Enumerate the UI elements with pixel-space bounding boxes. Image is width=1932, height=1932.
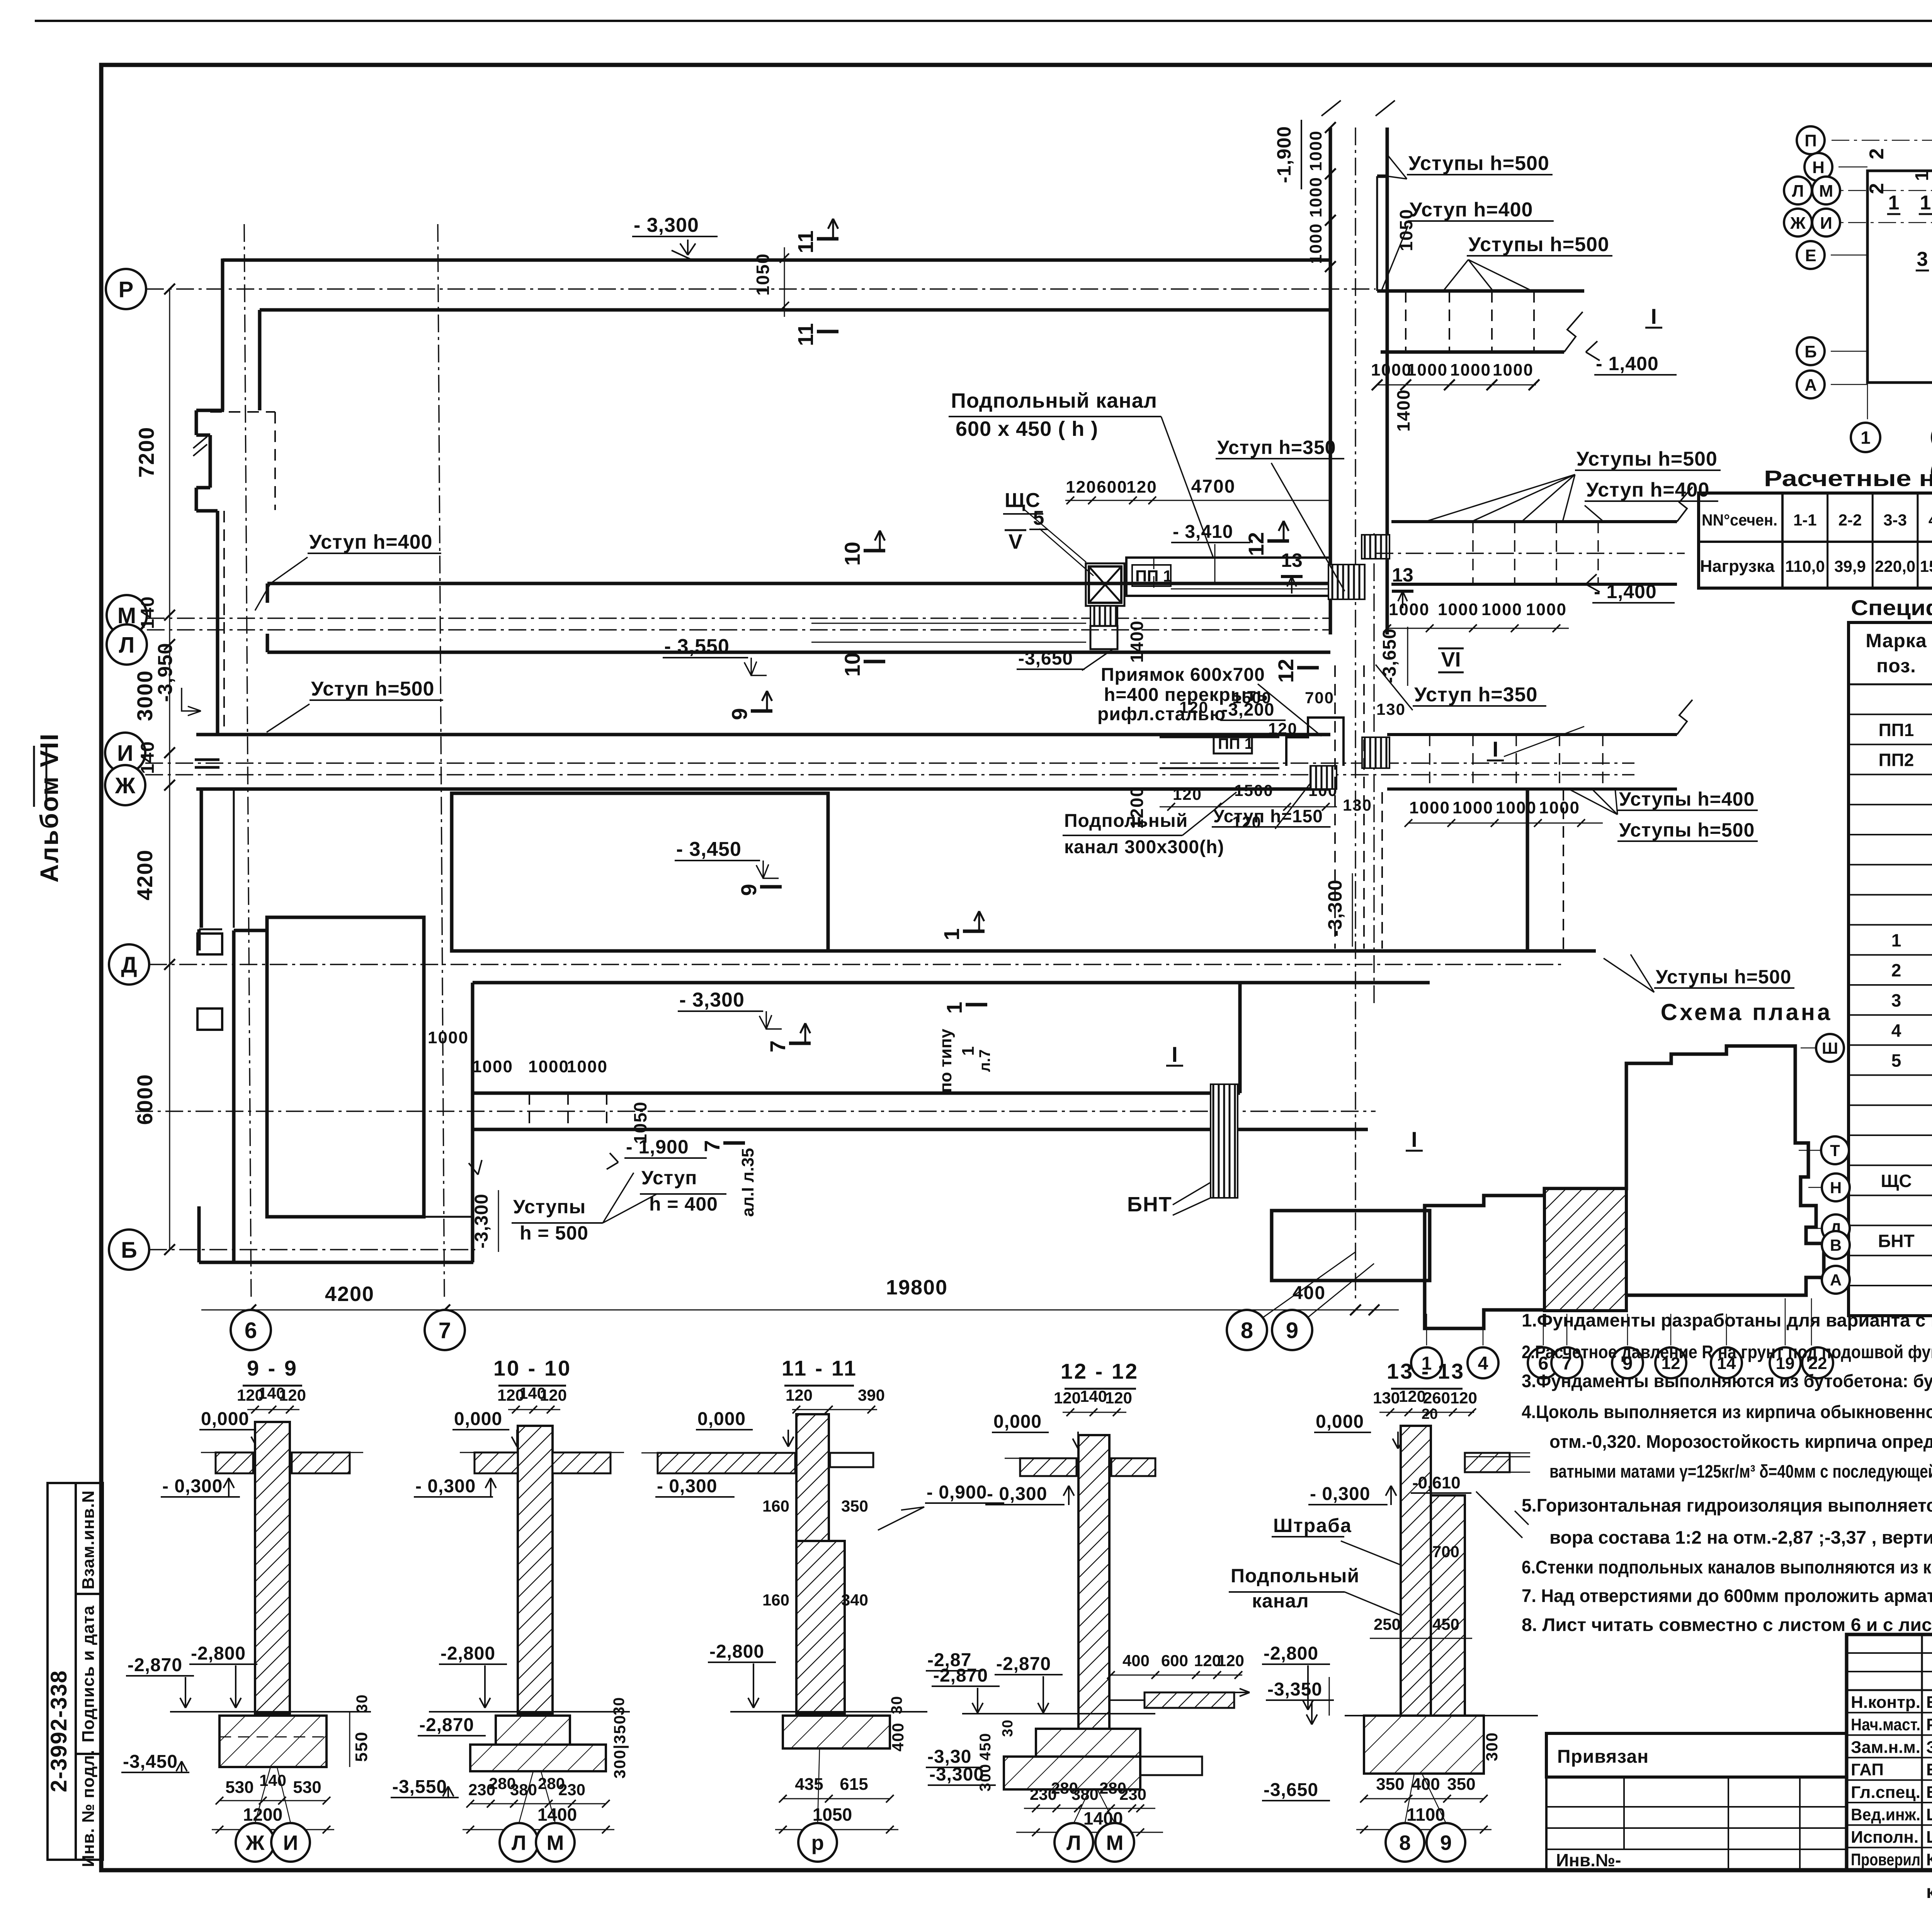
left wall top vertical outer [221, 259, 224, 410]
svg-text:1050: 1050 [630, 1101, 650, 1144]
12-12 right pad [1140, 1757, 1202, 1775]
wall band D top line [452, 949, 1596, 953]
svg-text:Приямок 600х700: Приямок 600х700 [1101, 665, 1265, 685]
ShchS X diag1 [1089, 566, 1121, 603]
left wall vert c [195, 488, 198, 511]
svg-text:160: 160 [762, 1497, 789, 1515]
svg-text:7. Над отверстиями до 600мм п: 7. Над отверстиями до 600мм проложить ар… [1522, 1585, 1932, 1606]
11-11 column upper [796, 1414, 829, 1541]
svg-text:Уступ h=400: Уступ h=400 [1410, 199, 1533, 221]
svg-text:-2,800: -2,800 [1264, 1643, 1318, 1664]
svg-text:Гл.спец.: Гл.спец. [1851, 1783, 1920, 1802]
svg-text:Н: Н [1830, 1179, 1842, 1197]
svg-text:1050: 1050 [1396, 209, 1416, 251]
schema right bubbles [1816, 1034, 1844, 1062]
left wall dashed v2 [223, 511, 225, 734]
svg-text:2-2: 2-2 [1838, 511, 1862, 529]
svg-text:Ш: Ш [1822, 1039, 1838, 1057]
svg-text:Проверил: Проверил [1851, 1850, 1920, 1869]
svg-text:1500: 1500 [1234, 781, 1273, 799]
svg-text:30: 30 [1000, 1719, 1016, 1737]
bottom right room rect [1272, 1211, 1430, 1281]
left wall vertical to I band [216, 511, 219, 735]
13-13 footing [1364, 1716, 1484, 1774]
svg-text:9: 9 [1440, 1831, 1452, 1854]
svg-text:1000: 1000 [1481, 600, 1522, 619]
svg-text:вора состава 1:2 на отм.-2,8: вора состава 1:2 на отм.-2,87 ;-3,37 , в… [1549, 1527, 1932, 1548]
svg-text:7200: 7200 [134, 427, 158, 478]
svg-text:7: 7 [700, 1140, 724, 1152]
lower-left outer wall vertical2 [197, 1206, 201, 1262]
svg-text:1-1: 1-1 [1793, 511, 1817, 529]
dim line band R [784, 247, 785, 317]
leader bubble 9 [1308, 1264, 1374, 1318]
svg-text:160: 160 [762, 1591, 789, 1609]
svg-text:Н: Н [1812, 158, 1825, 177]
svg-text:1000: 1000 [1452, 798, 1493, 817]
svg-text:Ж: Ж [1790, 214, 1806, 233]
svg-text:Инв.№-: Инв.№- [1556, 1850, 1621, 1870]
axis 7 centerline [438, 224, 444, 1298]
svg-text:РАДЫГИН: РАДЫГИН [1926, 1715, 1932, 1734]
svg-text:380: 380 [1071, 1785, 1099, 1803]
svg-text:Исполн.: Исполн. [1851, 1828, 1918, 1847]
svg-text:260: 260 [1423, 1389, 1450, 1407]
svg-text:9: 9 [727, 708, 752, 720]
plate PP1 long box [1126, 558, 1330, 596]
svg-text:450: 450 [1432, 1615, 1459, 1633]
hatch at I/Zh crossing [1310, 766, 1337, 789]
svg-text:I: I [1411, 1127, 1417, 1151]
break mark [1564, 312, 1583, 352]
svg-text:0,000: 0,000 [454, 1409, 502, 1429]
10-10 ground [429, 1711, 630, 1713]
dim line y996 [1377, 384, 1536, 386]
svg-text:-3,450: -3,450 [123, 1752, 178, 1772]
left wall notch a2 [195, 410, 198, 435]
svg-text:В: В [1830, 1236, 1842, 1254]
scheme left block [1867, 171, 1932, 383]
svg-text:700: 700 [1305, 689, 1334, 707]
svg-text:Взам.инв.N: Взам.инв.N [79, 1490, 98, 1590]
svg-text:-3,650: -3,650 [1379, 628, 1400, 683]
svg-text:1500: 1500 [1232, 689, 1271, 707]
scheme bottom leader lines [1867, 383, 1868, 419]
svg-text:30: 30 [354, 1694, 371, 1713]
lower centerline [135, 1111, 1376, 1112]
svg-text:поз.: поз. [1876, 655, 1916, 677]
section mark 1 upper [963, 930, 985, 933]
svg-text:-3,300: -3,300 [471, 1194, 492, 1248]
svg-text:120: 120 [1173, 785, 1202, 803]
svg-text:1: 1 [1891, 930, 1901, 950]
svg-text:6: 6 [245, 1318, 257, 1343]
axis I centerline [145, 762, 1634, 764]
svg-text:Спецификация изделий и мате: Спецификация изделий и материалов на фун… [1851, 595, 1932, 620]
I ext break [1677, 700, 1692, 735]
svg-text:БНТ: БНТ [1878, 1231, 1914, 1251]
svg-text:220,0: 220,0 [1875, 557, 1915, 575]
wall band I bottom line [196, 787, 1330, 791]
dim line 4200 [201, 1310, 445, 1311]
svg-text:13: 13 [1281, 549, 1303, 571]
axis D centerline [149, 964, 1565, 965]
hatch at M/L crossing [1328, 565, 1365, 599]
svg-text:Подпольный канал: Подпольный канал [951, 389, 1157, 412]
right wall dashed [1563, 789, 1564, 951]
svg-text:Подпольный: Подпольный [1231, 1565, 1359, 1587]
10-10 footing lower [470, 1745, 606, 1771]
11-11 slab left long [658, 1453, 795, 1473]
svg-text:1400: 1400 [1393, 389, 1413, 432]
svg-text:VI: VI [1441, 648, 1461, 671]
svg-text:Д: Д [121, 952, 137, 978]
svg-text:130: 130 [1343, 796, 1372, 814]
leaders ShchS [1024, 509, 1086, 562]
dashed verticals below band5 [529, 1093, 530, 1129]
11-11 column lower wide [796, 1541, 845, 1714]
left wall notch d [196, 509, 218, 513]
12-12 column [1078, 1435, 1109, 1729]
svg-text:Н.контр.: Н.контр. [1851, 1693, 1920, 1712]
svg-text:л.7: л.7 [976, 1049, 993, 1072]
svg-text:11: 11 [793, 323, 818, 346]
svg-text:р: р [811, 1831, 824, 1854]
svg-text:4200: 4200 [133, 849, 157, 901]
svg-text:Марка: Марка [1866, 630, 1927, 651]
svg-text:0,000: 0,000 [697, 1409, 746, 1429]
svg-text:Схема плана: Схема плана [1661, 999, 1833, 1025]
svg-text:Подпольный: Подпольный [1064, 811, 1188, 831]
svg-text:Уступы h=500: Уступы h=500 [1619, 819, 1755, 841]
svg-text:3000: 3000 [133, 670, 157, 721]
svg-text:4: 4 [1478, 1353, 1488, 1374]
svg-text:120: 120 [279, 1386, 306, 1404]
right wall vertical [1526, 789, 1529, 951]
svg-text:Б: Б [121, 1238, 137, 1263]
13-13 top right lines [1465, 1456, 1530, 1458]
svg-text:5.Горизонтальная гидроизоляция: 5.Горизонтальная гидроизоляция выполняет… [1522, 1495, 1932, 1515]
svg-text:1000: 1000 [1450, 361, 1491, 379]
bottom wall line [473, 1128, 1368, 1131]
svg-text:Ж: Ж [245, 1831, 265, 1854]
strip top break marks [1321, 100, 1341, 116]
svg-text:10: 10 [840, 653, 864, 677]
10-10 column [518, 1426, 553, 1714]
svg-text:0,000: 0,000 [993, 1412, 1042, 1432]
svg-text:120: 120 [1105, 1389, 1132, 1407]
svg-text:130: 130 [1373, 1389, 1400, 1407]
svg-text:530: 530 [225, 1778, 253, 1797]
svg-text:ПП1: ПП1 [1879, 720, 1914, 740]
svg-text:130: 130 [1376, 700, 1406, 718]
axis L centerline [147, 629, 1331, 630]
axis M bubble [107, 595, 147, 635]
svg-text:Л: Л [1066, 1831, 1081, 1854]
svg-text:1000: 1000 [1496, 798, 1537, 817]
leader -3.410 [1214, 544, 1216, 584]
svg-text:И: И [1820, 214, 1832, 233]
svg-text:копировал: копировал [1926, 1882, 1932, 1902]
left wall top vertical inner [258, 310, 262, 410]
svg-text:-2,870: -2,870 [933, 1665, 988, 1686]
svg-text:- 0,300: - 0,300 [987, 1484, 1047, 1504]
svg-text:10 - 10: 10 - 10 [493, 1356, 571, 1380]
svg-text:- 3,300: - 3,300 [679, 989, 745, 1011]
axis B bubble [109, 1230, 149, 1270]
svg-text:140: 140 [138, 741, 158, 774]
dim line I [1408, 823, 1603, 824]
section mark 9 lower [760, 885, 782, 889]
svg-text:Уступы h=400: Уступы h=400 [1619, 788, 1755, 810]
svg-text:2: 2 [1866, 183, 1888, 194]
step line y911 [1381, 350, 1564, 354]
svg-text:1200: 1200 [1127, 786, 1147, 829]
svg-text:-3,650: -3,650 [1018, 648, 1073, 669]
left wall below I band2 [233, 789, 235, 928]
svg-text:300: 300 [1483, 1732, 1501, 1761]
svg-text:300|350: 300|350 [611, 1714, 629, 1779]
svg-text:350: 350 [1376, 1775, 1404, 1794]
svg-text:550: 550 [352, 1731, 371, 1762]
svg-text:- 0,300: - 0,300 [415, 1476, 476, 1497]
svg-text:1050: 1050 [753, 253, 773, 296]
svg-text:600: 600 [1097, 478, 1127, 497]
svg-text:ШИЛТОВА: ШИЛТОВА [1926, 1805, 1932, 1824]
section mark 13 right [1392, 590, 1413, 593]
svg-text:- 1,400: - 1,400 [1596, 353, 1659, 374]
svg-text:по типу: по типу [936, 1029, 955, 1093]
svg-text:3: 3 [1891, 990, 1901, 1010]
svg-text:1000: 1000 [1526, 600, 1567, 619]
svg-text:Е: Е [1805, 246, 1816, 265]
svg-text:11 - 11: 11 - 11 [782, 1356, 857, 1380]
svg-text:Инв. № подл.: Инв. № подл. [79, 1750, 98, 1867]
left dim chain line [169, 289, 170, 1250]
scheme axis bubbles left [1797, 126, 1825, 154]
svg-text:0,000: 0,000 [1316, 1412, 1364, 1432]
BNT hatch block [1211, 1084, 1238, 1198]
svg-text:350: 350 [841, 1497, 868, 1515]
svg-text:4.Цоколь выполняется из кирпич: 4.Цоколь выполняется из кирпича обыкнове… [1522, 1401, 1932, 1422]
svg-text:Уступ h=350: Уступ h=350 [1217, 437, 1336, 458]
svg-text:7: 7 [439, 1318, 451, 1343]
svg-text:Уступ h=350: Уступ h=350 [1414, 684, 1537, 706]
svg-text:ЕГОРОВ: ЕГОРОВ [1926, 1693, 1932, 1712]
hatch at I/Zh crossing2 [1362, 737, 1389, 768]
svg-text:Л: Л [1792, 182, 1804, 201]
dashed step verticals [1405, 291, 1406, 352]
schema plana hatched block [1544, 1189, 1626, 1311]
svg-text:- 3,450: - 3,450 [676, 838, 742, 861]
svg-text:120: 120 [1217, 1651, 1244, 1670]
svg-text:11: 11 [793, 230, 818, 253]
svg-text:- 0,300: - 0,300 [1310, 1484, 1370, 1504]
svg-text:БОРОЗНОВ: БОРОЗНОВ [1926, 1783, 1932, 1802]
scheme bottom bubbles [1851, 423, 1880, 452]
schema plana outline [1425, 1046, 1824, 1328]
left wall notch b [196, 434, 210, 437]
axis 9 centerline partial [1373, 533, 1374, 1005]
wall band R top line [223, 259, 1330, 262]
privyazan grid [1546, 1777, 1847, 1870]
svg-text:П: П [1804, 131, 1817, 150]
svg-text:390: 390 [858, 1386, 885, 1404]
svg-text:7: 7 [765, 1040, 790, 1052]
axis Zh bubble [105, 765, 145, 805]
dim line mid [1387, 628, 1569, 629]
axis M centerline [147, 617, 1331, 619]
svg-text:-1,900: -1,900 [1273, 126, 1295, 183]
ShchS X-box [1089, 566, 1121, 603]
svg-text:120: 120 [1126, 478, 1157, 497]
9-9 footing [219, 1716, 327, 1767]
strip dashed left [1334, 665, 1336, 949]
svg-text:3-3: 3-3 [1883, 511, 1907, 529]
svg-text:1000: 1000 [528, 1057, 569, 1076]
svg-text:450: 450 [977, 1733, 994, 1761]
svg-text:М: М [547, 1831, 564, 1854]
9-9 bubbles [255, 1767, 270, 1823]
axis B centerline [149, 1249, 475, 1250]
svg-text:Уступ h=400: Уступ h=400 [1586, 479, 1709, 501]
svg-text:Уступы h=500: Уступы h=500 [1656, 966, 1791, 988]
svg-text:9 - 9: 9 - 9 [247, 1356, 298, 1380]
svg-text:1: 1 [1861, 428, 1871, 448]
svg-text:ЕГОРОВ: ЕГОРОВ [1926, 1760, 1932, 1779]
svg-text:1000: 1000 [428, 1028, 469, 1047]
svg-text:-3,950: -3,950 [154, 643, 177, 702]
svg-text:39,9: 39,9 [1834, 557, 1866, 575]
svg-text:120: 120 [1179, 698, 1209, 716]
dim line plate row [1065, 500, 1330, 501]
svg-text:1000: 1000 [1539, 798, 1580, 817]
svg-text:120: 120 [786, 1386, 813, 1404]
svg-text:ПП2: ПП2 [1879, 750, 1914, 770]
spec table grid [1849, 622, 1932, 1316]
svg-text:М: М [1819, 182, 1833, 201]
svg-text:1: 1 [1888, 192, 1900, 214]
axis 6 centerline [244, 224, 251, 1298]
svg-text:230: 230 [1119, 1785, 1146, 1803]
svg-text:6000: 6000 [133, 1074, 157, 1125]
svg-text:600: 600 [1161, 1651, 1188, 1670]
13-13 slab right [1465, 1453, 1510, 1472]
svg-text:h = 400: h = 400 [649, 1193, 718, 1215]
ShchS X-box outer [1086, 563, 1124, 606]
svg-text:120: 120 [1054, 1389, 1081, 1407]
svg-text:-2,800: -2,800 [709, 1641, 764, 1662]
title block vertical lines left part [1921, 1634, 1923, 1870]
svg-text:1400: 1400 [1127, 620, 1147, 663]
axis I bubble [105, 733, 145, 773]
11-11 ground [730, 1711, 927, 1713]
svg-text:Уступы h=500: Уступы h=500 [1577, 448, 1718, 470]
13-13 column right part [1431, 1495, 1465, 1716]
svg-text:1.Фундаменты разработаны для: 1.Фундаменты разработаны для варианта с … [1522, 1310, 1932, 1330]
9-9 column [255, 1422, 290, 1714]
wall band I top line [196, 733, 1330, 736]
privyazan box [1546, 1733, 1847, 1777]
svg-text:Уступы h=500: Уступы h=500 [1468, 233, 1609, 256]
12-12 slab shelf right [1145, 1692, 1234, 1708]
section mark 12 lower [1297, 666, 1319, 670]
svg-text:2: 2 [1866, 148, 1888, 160]
12-12 footing upper [1036, 1729, 1140, 1757]
I band right extension bottom [1387, 787, 1677, 791]
svg-text:8: 8 [1399, 1831, 1411, 1854]
svg-text:А: А [1804, 376, 1817, 395]
svg-text:БНТ: БНТ [1127, 1193, 1172, 1216]
wall band M left step [266, 583, 269, 603]
svg-text:ал.I л.35: ал.I л.35 [738, 1148, 757, 1217]
svg-text:30: 30 [611, 1697, 628, 1716]
9-9 footing dashed [219, 1736, 327, 1738]
section mark 9 upper [751, 709, 772, 713]
svg-text:400: 400 [1122, 1651, 1150, 1670]
svg-text:1000: 1000 [1371, 361, 1412, 379]
svg-text:1000: 1000 [1409, 798, 1450, 817]
svg-text:Л: Л [119, 633, 135, 658]
svg-text:530: 530 [293, 1778, 321, 1797]
band5 right vertical [1238, 983, 1242, 1093]
svg-text:А: А [1830, 1271, 1842, 1289]
svg-text:700: 700 [1432, 1543, 1459, 1561]
left wall dashed v [274, 412, 276, 510]
schema bottom leaders [1426, 1314, 1427, 1345]
svg-text:Уступ h=150: Уступ h=150 [1213, 806, 1323, 826]
svg-text:Р: Р [119, 277, 134, 302]
svg-text:13: 13 [1392, 564, 1413, 586]
band5 step left bottom [424, 1216, 473, 1218]
band5 bottom line [473, 1092, 1240, 1095]
wall band R bottom line [260, 308, 1330, 312]
svg-text:- 1,400: - 1,400 [1594, 581, 1657, 602]
svg-text:- 0,300: - 0,300 [162, 1476, 223, 1497]
section mark 11 bottom [817, 330, 838, 333]
svg-text:1: 1 [939, 928, 964, 940]
section mark 10 upper [864, 549, 885, 553]
section mark 7 lower [723, 1141, 745, 1145]
svg-text:9: 9 [1286, 1318, 1298, 1343]
svg-text:ШИЛТОВА: ШИЛТОВА [1926, 1828, 1932, 1847]
ShchS X diag2 [1089, 566, 1121, 603]
svg-text:0,000: 0,000 [201, 1409, 249, 1429]
svg-text:V: V [1009, 530, 1022, 553]
svg-text:1200: 1200 [243, 1804, 282, 1825]
PP1 inner line [1171, 588, 1330, 590]
svg-text:-3,300: -3,300 [1324, 879, 1346, 937]
svg-text:- 3,300: - 3,300 [634, 214, 699, 236]
svg-text:-2,870: -2,870 [419, 1715, 474, 1735]
svg-text:М: М [1106, 1831, 1124, 1854]
PP1 label box [1132, 565, 1171, 586]
svg-text:Б: Б [1804, 342, 1817, 361]
left wall notch I [195, 759, 219, 761]
svg-text:12 - 12: 12 - 12 [1061, 1359, 1139, 1383]
section mark 1 lower [966, 1003, 987, 1007]
svg-text:Нагрузка: Нагрузка [1700, 557, 1775, 576]
13-13 diag break [1476, 1492, 1529, 1538]
svg-text:350: 350 [1447, 1775, 1475, 1794]
svg-text:Уступ h=500: Уступ h=500 [311, 678, 434, 700]
svg-text:20: 20 [1422, 1406, 1438, 1422]
ShchS lower box [1090, 626, 1117, 649]
svg-text:230: 230 [558, 1781, 585, 1799]
svg-text:Вед.инж.: Вед.инж. [1851, 1805, 1920, 1824]
break mark left wall [193, 437, 207, 456]
svg-text:Уступы: Уступы [513, 1196, 586, 1218]
